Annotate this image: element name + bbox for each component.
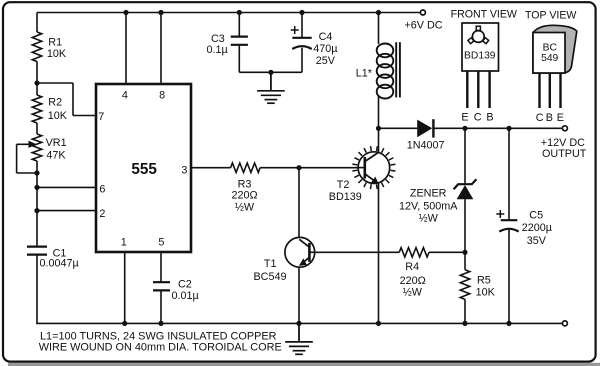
svg-text:0.01µ: 0.01µ (172, 290, 199, 302)
svg-text:555: 555 (131, 161, 157, 178)
svg-text:C: C (536, 112, 544, 124)
svg-text:C: C (474, 111, 482, 123)
svg-text:BC: BC (543, 42, 558, 53)
svg-text:35V: 35V (527, 235, 547, 247)
svg-text:BC549: BC549 (253, 271, 286, 283)
svg-text:4: 4 (122, 90, 128, 102)
svg-text:½W: ½W (235, 201, 255, 213)
svg-text:220Ω: 220Ω (231, 189, 257, 201)
svg-text:220Ω: 220Ω (400, 275, 426, 287)
svg-text:BD139: BD139 (464, 50, 496, 61)
svg-text:7: 7 (98, 111, 104, 123)
svg-text:E: E (461, 111, 468, 123)
svg-text:½W: ½W (419, 213, 439, 225)
svg-text:L1*: L1* (356, 68, 373, 80)
svg-text:TOP VIEW: TOP VIEW (525, 9, 576, 21)
svg-text:C2: C2 (178, 279, 192, 291)
svg-text:+6V DC: +6V DC (405, 20, 443, 32)
svg-text:10K: 10K (47, 48, 67, 60)
svg-text:FRONT VIEW: FRONT VIEW (451, 9, 517, 21)
svg-text:WIRE WOUND ON 40mm DIA. TOROID: WIRE WOUND ON 40mm DIA. TOROIDAL CORE (39, 342, 282, 354)
svg-text:T2: T2 (337, 179, 350, 191)
svg-text:+12V DC: +12V DC (541, 137, 585, 149)
svg-text:8: 8 (159, 90, 165, 102)
svg-text:3: 3 (181, 164, 187, 176)
svg-text:12V, 500mA: 12V, 500mA (399, 200, 458, 212)
svg-text:VR1: VR1 (46, 137, 67, 149)
svg-text:T1: T1 (264, 258, 277, 270)
svg-text:C4: C4 (319, 31, 333, 43)
svg-text:E: E (557, 112, 564, 124)
svg-text:OUTPUT: OUTPUT (542, 148, 587, 160)
svg-text:2200µ: 2200µ (522, 222, 552, 234)
svg-text:6: 6 (99, 184, 105, 196)
svg-text:R1: R1 (48, 36, 62, 48)
svg-text:5: 5 (158, 237, 164, 249)
svg-text:1N4007: 1N4007 (407, 139, 445, 151)
svg-text:½W: ½W (403, 287, 423, 299)
svg-text:R5: R5 (477, 274, 491, 286)
svg-text:470µ: 470µ (313, 43, 337, 55)
svg-text:R4: R4 (405, 261, 419, 273)
svg-text:BD139: BD139 (329, 191, 362, 203)
svg-text:0.0047µ: 0.0047µ (40, 258, 79, 270)
svg-text:549: 549 (541, 53, 558, 64)
svg-text:0.1µ: 0.1µ (207, 44, 228, 56)
svg-text:ZENER: ZENER (410, 188, 447, 200)
svg-text:25V: 25V (316, 55, 336, 67)
svg-text:1: 1 (121, 237, 127, 249)
svg-text:B: B (486, 111, 493, 123)
svg-text:10K: 10K (476, 287, 496, 299)
svg-text:B: B (546, 112, 553, 124)
svg-text:C5: C5 (529, 209, 543, 221)
svg-text:R2: R2 (48, 97, 62, 109)
svg-text:47K: 47K (46, 149, 66, 161)
svg-text:10K: 10K (48, 110, 68, 122)
svg-text:2: 2 (99, 208, 105, 220)
